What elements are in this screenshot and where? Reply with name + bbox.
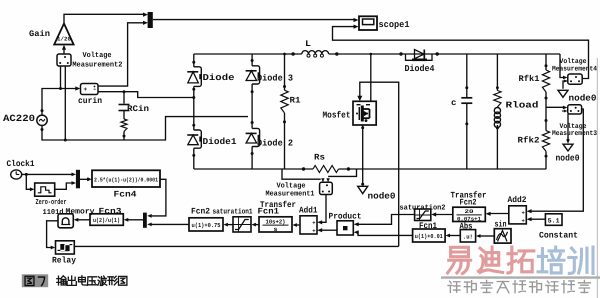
wire: bottom return bus (194, 168, 313, 170)
wire: capacitor c column (466, 54, 468, 97)
wire: output-voltage feedback to scope1 input 2 (333, 27, 589, 79)
mux M1 (scope inputs) (148, 12, 153, 28)
svg-text:+: + (522, 210, 526, 217)
diode D4 (Diode4) on DC bus (406, 54, 433, 60)
wire: Mosfet source down to sense node (362, 125, 364, 184)
wire: left bridge column (193, 54, 195, 67)
summing block Add2 (509, 206, 527, 224)
wire: Fcn3 to Memory (77, 219, 90, 221)
caption box 图7 (22, 274, 48, 287)
saturation block saturation1 (233, 217, 251, 232)
ac source AC220 (37, 115, 47, 125)
ground node0 at source sense (358, 186, 368, 193)
svg-text:Fcn4: Fcn4 (114, 190, 137, 200)
voltage measurement block Voltage Measurement3 (568, 105, 582, 114)
svg-text:c: c (451, 98, 457, 108)
mosfet block Mosfet (353, 101, 376, 125)
svg-text:Constant: Constant (539, 230, 578, 240)
wire: Add1 to Transfer Fcn1 (296, 224, 301, 226)
wire: right bridge column (251, 54, 253, 66)
page border (right, faint) (596, 58, 598, 298)
svg-text:Measurement2: Measurement2 (72, 61, 122, 70)
wire: curin measurement output up to mux (98, 23, 144, 86)
resistor Rfk1 (542, 70, 549, 92)
mux M2 (76, 170, 80, 189)
capacitor c (461, 97, 472, 99)
diode D2 (Diode 2) (252, 128, 260, 146)
wire: Fcn2 to mux M3 (151, 223, 190, 225)
wire: Abs to Fcn1 (449, 235, 461, 237)
memory block Memory (58, 214, 73, 228)
wire: gain output to mux Scope bus (64, 14, 144, 23)
wire: VM4 - to ground (563, 81, 568, 89)
svg-text:Rfk2: Rfk2 (518, 136, 540, 146)
wire: sin to Abs (479, 235, 494, 237)
svg-text:Add1: Add1 (299, 205, 318, 215)
svg-text:Zero-order: Zero-order (36, 198, 67, 207)
svg-text:Rs: Rs (314, 153, 325, 163)
svg-text:2.5*(u(1)-u(2))/0.0001: 2.5*(u(1)-u(2))/0.0001 (94, 176, 158, 183)
svg-text:saturation1: saturation1 (213, 207, 253, 216)
svg-text:Diode4: Diode4 (405, 64, 436, 74)
voltage measurement block Voltage Measurement1 (320, 182, 333, 194)
svg-text:Diode 3: Diode 3 (257, 74, 293, 84)
svg-text:saturation2: saturation2 (400, 204, 446, 213)
svg-text:20: 20 (465, 208, 474, 215)
svg-text:Gain: Gain (29, 29, 50, 39)
wire: VM1 + tap from Rs left (282, 169, 321, 179)
resistor R1 column (284, 54, 286, 90)
svg-text:Add2: Add2 (508, 195, 527, 205)
svg-text:u(1)+0.75: u(1)+0.75 (192, 222, 221, 229)
resistor Rfk2 (542, 131, 549, 152)
ground node0 VM4 (558, 90, 568, 97)
wire: RCin branch (123, 92, 125, 104)
svg-text:Measurement3: Measurement3 (552, 130, 597, 138)
wire: Fcn1 to saturation1 (255, 224, 260, 226)
wire: Clock1 to mux M2 (22, 173, 73, 175)
watermark big text (448, 247, 471, 273)
wire: mux M2 to Fcn4 (80, 178, 89, 180)
constant block Constant (5.1) (545, 214, 562, 226)
svg-text:Product: Product (329, 211, 362, 221)
clock source Clock1 (11, 170, 22, 179)
wire: AC source bottom rail (42, 117, 248, 140)
svg-text:RCin: RCin (127, 104, 149, 114)
wire: AC source top rail to curin (42, 89, 77, 116)
svg-text:Diode: Diode (203, 73, 235, 83)
wire: Clock1 branch to Zero-order hold (26, 174, 31, 189)
diode D3 (Diode 3) (252, 66, 260, 84)
ground node0 VM3 (563, 144, 573, 151)
wire: VM2 + lead down to source top rail (60, 66, 62, 89)
voltage measurement block Voltage Measurement4 (568, 74, 582, 84)
sine source block sin (494, 229, 511, 243)
svg-text:u(1)+0.01: u(1)+0.01 (415, 233, 443, 240)
scope block scope1 (359, 16, 377, 30)
wire: VM3 + tap from divider midpoint (546, 106, 563, 108)
svg-text:node0: node0 (556, 154, 580, 164)
svg-text:node0: node0 (569, 94, 597, 104)
svg-text:sin: sin (495, 220, 507, 230)
svg-text:Diode1: Diode1 (203, 137, 238, 147)
svg-text:Diode 2: Diode 2 (257, 139, 293, 149)
load Rload column (496, 54, 498, 91)
svg-text:Fcn3: Fcn3 (99, 206, 122, 216)
svg-text:Rfk1: Rfk1 (519, 74, 540, 84)
svg-text:node0: node0 (368, 192, 396, 202)
wire: VM3 ground stem (567, 114, 569, 140)
relay block Relay (56, 241, 75, 254)
transfer fcn block Transfer Fcn1 (259, 217, 292, 232)
transfer fcn block Transfer Fcn2 (453, 207, 486, 221)
svg-text:R1: R1 (290, 96, 301, 106)
wire: Fcn2 to saturation2 (435, 214, 453, 216)
resistor Rs (313, 166, 339, 173)
wire: Memory to Relay (47, 221, 58, 248)
wire: curin output to bridge left midpoint (98, 92, 194, 98)
svg-text:Voltage: Voltage (277, 182, 307, 191)
diode D (Diode) (194, 67, 202, 87)
wire: VM2 output up into Gain (63, 49, 65, 55)
wire: VM1 - tap from Rs right (328, 169, 356, 176)
svg-text:AC220: AC220 (3, 113, 35, 124)
svg-text:Relay: Relay (52, 256, 76, 266)
fcn block Fcn3 (u(2)/u(1)) (90, 214, 123, 226)
wire: Fcn4 output loop to mux M3 (151, 179, 166, 216)
wire: gate drive up from Relay bus (360, 82, 399, 246)
fcn block Fcn2 (u(1)+0.75) (189, 218, 223, 231)
wire: mux output to scope1 (153, 19, 355, 21)
mux M3 (143, 213, 147, 228)
svg-text:Fcn2: Fcn2 (460, 198, 477, 208)
svg-text:Fcn1: Fcn1 (419, 221, 437, 231)
svg-text:Mosfet: Mosfet (323, 111, 351, 121)
fcn block Fcn1 (u(1)+0.01) (413, 229, 446, 242)
wire: drain from bus to Mosfet (370, 54, 372, 101)
svg-text:Fcn2: Fcn2 (191, 207, 210, 217)
svg-text:Clock1: Clock1 (7, 159, 35, 169)
svg-text:1101d: 1101d (43, 208, 64, 217)
resistor R1 (281, 90, 288, 113)
voltage measurement block Voltage Measurement2 (57, 54, 71, 66)
resistor of RCin (121, 119, 127, 132)
svg-text:5.1: 5.1 (548, 217, 560, 224)
svg-text:Memory: Memory (66, 208, 95, 217)
inductor part of Rload (494, 108, 500, 114)
wire: mux M3 to Fcn3 (127, 219, 143, 221)
fcn block Fcn4 (92, 170, 160, 187)
svg-text:Measurement4: Measurement4 (552, 65, 597, 73)
svg-text:Abs: Abs (460, 222, 473, 232)
inductor L (302, 51, 309, 54)
svg-text:10s+2): 10s+2) (266, 218, 286, 225)
resistor part of Rload (494, 91, 501, 108)
svg-text:s: s (274, 226, 278, 233)
svg-text:L: L (305, 39, 311, 49)
wire: saturation1 to Fcn2 (227, 224, 234, 226)
wire: VM3 output down to Add2 (530, 109, 583, 211)
svg-text:+: + (84, 86, 88, 93)
summing block Add1 (300, 216, 317, 234)
wire: Product to Add1 (321, 229, 337, 231)
svg-text:curin: curin (78, 96, 102, 106)
capacitor of RCin (119, 104, 130, 106)
wire: Relay output bus to gate riser (74, 245, 398, 247)
svg-text:Measurement1: Measurement1 (266, 191, 316, 199)
svg-text:scope1: scope1 (379, 20, 411, 30)
watermark underline (441, 276, 600, 278)
wire: Constant to Add2 (530, 218, 545, 220)
wire: Add2 to Transfer Fcn2 (489, 213, 509, 215)
wire: VM2 - lead down to source bottom rail (64, 66, 66, 140)
wire: top DC bus (194, 53, 302, 55)
wire: ZOH to mux M2 (55, 183, 73, 189)
svg-text:u(2)/u(1): u(2)/u(1) (93, 217, 120, 224)
wire: Fcn1 to Product (357, 232, 413, 235)
svg-text:Voltage: Voltage (83, 51, 112, 60)
caption text (figure title) (57, 276, 66, 285)
svg-text:.u!: .u! (463, 233, 473, 240)
saturation block saturation2 (415, 209, 431, 221)
diode D1 (Diode1) (194, 130, 202, 148)
divider column Rfk1/Rfk2 (545, 54, 547, 70)
product block Product (337, 221, 353, 235)
zero-order hold block (35, 183, 55, 196)
svg-text:Fcn1: Fcn1 (258, 207, 280, 217)
abs block Abs (460, 230, 475, 242)
watermark small text (448, 281, 460, 292)
wire: saturation2 to Product (357, 215, 415, 225)
wire: VM3 - stub (564, 110, 568, 113)
svg-text:+: + (312, 219, 316, 226)
current measurement block curin (81, 84, 99, 95)
svg-text:Rload: Rload (506, 101, 539, 111)
svg-text:1/20: 1/20 (57, 36, 72, 43)
wire: bus corner into VM4 + (560, 54, 564, 78)
gain block Gain (1/20 triangle) (54, 24, 73, 45)
wire: VM1 output to Add1 (321, 195, 326, 223)
